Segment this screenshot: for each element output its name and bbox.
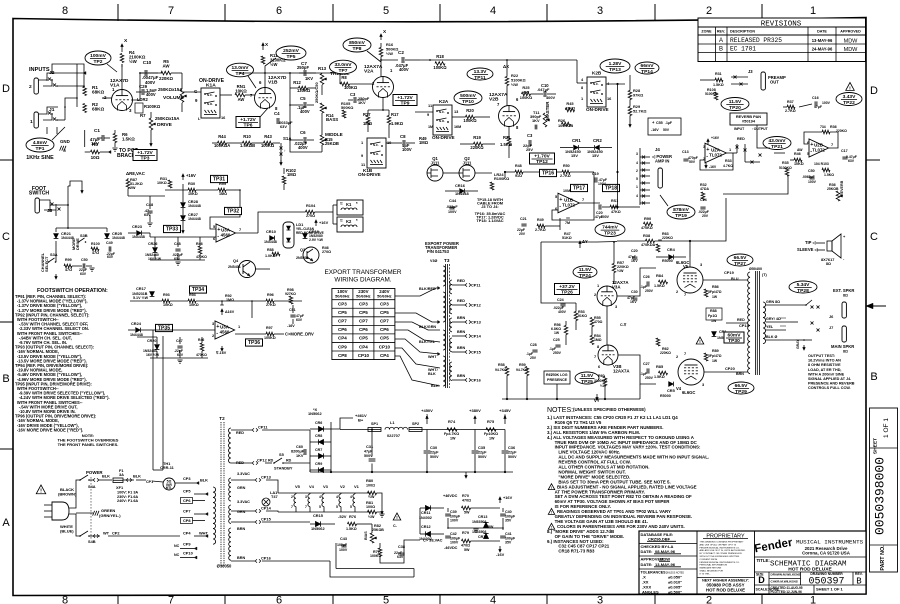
- svg-text:1.5KΩ: 1.5KΩ: [346, 527, 357, 531]
- svg-text:1W: 1W: [554, 331, 560, 335]
- svg-text:C42: C42: [450, 532, 457, 536]
- T2 heater secondary 1: [229, 478, 231, 501]
- svg-text:V4: V4: [676, 386, 682, 391]
- resistor R56: [564, 326, 568, 335]
- arrow +16V LD1: [315, 222, 317, 226]
- svg-text:MUSICAL INSTRUMENTS: MUSICAL INSTRUMENTS: [796, 539, 864, 546]
- svg-text:1N4448: 1N4448: [455, 191, 469, 196]
- svg-text:8Ω: 8Ω: [843, 350, 848, 354]
- svg-text:BRN: BRN: [457, 330, 465, 334]
- svg-text:K2: K2: [346, 219, 352, 224]
- svg-text:A: A: [719, 38, 723, 44]
- resistor R36a top: [822, 130, 830, 134]
- resistor R22 plate: [505, 77, 509, 86]
- svg-text:8: 8: [62, 595, 68, 604]
- filter cap C30: [424, 450, 431, 452]
- callout TP23 744mV: [595, 223, 625, 237]
- svg-text:PLOTTED:12-JUN-96: PLOTTED:12-JUN-96: [771, 590, 802, 594]
- diode CR25: [105, 234, 110, 239]
- svg-text:100V: 100V: [598, 182, 607, 186]
- svg-text:R97: R97: [266, 326, 273, 330]
- resistor RN1: [235, 93, 245, 97]
- svg-text:TP36: TP36: [248, 340, 260, 346]
- svg-text:400V: 400V: [298, 145, 308, 150]
- svg-text:10KΩ: 10KΩ: [235, 89, 247, 94]
- svg-text:J4: J4: [655, 147, 660, 152]
- svg-text:2N5401: 2N5401: [228, 265, 241, 269]
- resistor R96: [266, 299, 274, 303]
- wires input jacks: [39, 73, 61, 80]
- svg-text:½W: ½W: [511, 82, 518, 87]
- resistor R45: [566, 108, 575, 112]
- svg-text:Corona, CA 91720 USA: Corona, CA 91720 USA: [802, 551, 851, 556]
- svg-text:V3A: V3A: [612, 285, 621, 290]
- capacitor C8: [402, 140, 404, 146]
- svg-text:R50: R50: [563, 164, 570, 168]
- svg-text:BASS: BASS: [326, 117, 338, 122]
- svg-text:CP10: CP10: [358, 353, 370, 358]
- resistor R85: [659, 371, 668, 375]
- svg-text:-16V: -16V: [496, 552, 505, 557]
- svg-text:8200μF: 8200μF: [291, 450, 305, 454]
- svg-text:4: 4: [490, 595, 496, 604]
- svg-text:CP4: CP4: [338, 336, 347, 341]
- svg-text:250pF: 250pF: [297, 65, 309, 70]
- svg-text:RED: RED: [457, 279, 465, 283]
- svg-text:BLK: BLK: [133, 474, 141, 479]
- svg-text:CR7: CR7: [315, 448, 322, 452]
- capacitor C10: [144, 70, 146, 76]
- svg-text:CR11: CR11: [421, 511, 430, 515]
- svg-text:MAIN SPKR: MAIN SPKR: [831, 344, 854, 349]
- svg-text:Ø50400: Ø50400: [749, 267, 762, 271]
- svg-text:DESCRIPTION: DESCRIPTION: [730, 30, 755, 34]
- svg-text:7M: 7M: [565, 221, 570, 225]
- svg-text:↑OUTPUT: ↑OUTPUT: [752, 127, 769, 131]
- svg-text:CP5: CP5: [380, 336, 389, 341]
- supply +450V arrow: [426, 418, 428, 424]
- resistor R100: [91, 247, 99, 251]
- filter cap C36: [502, 450, 509, 452]
- svg-text:N.C.: N.C.: [207, 93, 213, 97]
- svg-text:CR13: CR13: [478, 515, 487, 519]
- AC plug: [52, 502, 69, 520]
- svg-text:≈: ≈: [340, 202, 343, 207]
- svg-text:CP18: CP18: [739, 323, 750, 328]
- svg-text:100V: 100V: [450, 541, 459, 545]
- svg-text:TP7: TP7: [339, 68, 348, 74]
- svg-text:C50: C50: [808, 169, 815, 173]
- transformer T3 primary windings: [443, 266, 446, 286]
- diode CR28: [181, 203, 186, 208]
- power amp bottom return bus: [502, 398, 640, 400]
- svg-text:4560: 4560: [221, 232, 231, 237]
- capacitor C3 cathode: [528, 140, 530, 146]
- svg-text:Δ16V: Δ16V: [225, 310, 235, 314]
- svg-text:TP17: TP17: [573, 186, 585, 192]
- svg-text:47KΩ: 47KΩ: [611, 210, 621, 214]
- svg-text:8Ω: 8Ω: [843, 294, 848, 298]
- svg-text:.0068μF: .0068μF: [802, 175, 815, 179]
- svg-text:4560: 4560: [220, 329, 230, 334]
- svg-text:1MΩ: 1MΩ: [287, 172, 297, 177]
- svg-text:68KΩ: 68KΩ: [92, 90, 104, 95]
- svg-text:AND USE OF ALL OR PART OF IT I: AND USE OF ALL OR PART OF IT IS: [700, 543, 737, 546]
- wires FETs: [443, 172, 459, 174]
- svg-text:R99: R99: [65, 258, 72, 262]
- callout TP29: [728, 382, 754, 394]
- resistor R99b: [218, 188, 226, 192]
- svg-text:7: 7: [305, 505, 307, 509]
- svg-text:#50194: #50194: [742, 119, 756, 124]
- svg-text:470KΩ: 470KΩ: [641, 226, 653, 230]
- svg-text:HOT ROD DELUXE: HOT ROD DELUXE: [706, 588, 745, 593]
- svg-text:10KΩ: 10KΩ: [794, 162, 804, 166]
- svg-text:2: 2: [636, 169, 638, 173]
- tube V1A: [112, 90, 133, 111]
- svg-text:ΔR8,VAC: ΔR8,VAC: [126, 171, 146, 176]
- capacitor C7: [303, 70, 305, 76]
- svg-text:2: 2: [291, 495, 293, 499]
- svg-text:SLEEVE ◁: SLEEVE ◁: [797, 247, 818, 252]
- supply arrow X: [121, 46, 123, 52]
- TP30 box: [724, 332, 744, 343]
- svg-text:100Ω: 100Ω: [366, 484, 375, 488]
- export wiring table: [332, 289, 395, 360]
- diode CR19: [303, 234, 308, 239]
- transformer T1 primary: [748, 272, 750, 374]
- svg-text:C47: C47: [176, 339, 183, 343]
- svg-text:R89: R89: [712, 349, 719, 353]
- svg-text:±0.500": ±0.500": [668, 590, 682, 595]
- svg-text:TIP ◁: TIP ◁: [805, 240, 817, 245]
- svg-text:Q4: Q4: [233, 258, 239, 263]
- svg-text:24-MAY-96: 24-MAY-96: [812, 47, 833, 52]
- svg-text:500V: 500V: [478, 455, 487, 459]
- callout TP10: [454, 91, 482, 105]
- +16V arrow: [499, 499, 501, 503]
- svg-text:C30: C30: [430, 445, 437, 450]
- wire power bus continuity: [597, 241, 617, 244]
- svg-text:REVISIONS: REVISIONS: [761, 21, 802, 29]
- title block size-drawing-rev row: [768, 572, 770, 585]
- svg-text:RS1: RS1: [611, 199, 618, 203]
- svg-text:R94: R94: [189, 293, 197, 297]
- svg-text:3: 3: [636, 152, 638, 156]
- svg-text:CP12: CP12: [471, 303, 482, 308]
- TP26 box: [555, 284, 580, 295]
- presence pot R67: [544, 371, 570, 384]
- svg-text:1: 1: [30, 119, 33, 125]
- svg-text:+16V: +16V: [186, 173, 196, 178]
- svg-text:R5000: R5000: [662, 259, 673, 263]
- callout TP27: [727, 254, 753, 266]
- diode CR2: [595, 145, 600, 150]
- svg-text:C35: C35: [478, 445, 486, 450]
- jack J6: [842, 302, 846, 318]
- svg-text:½W: ½W: [617, 269, 624, 273]
- svg-text:1.5KΩ: 1.5KΩ: [122, 137, 135, 142]
- svg-text:C19: C19: [592, 172, 599, 176]
- heater bus top: [278, 492, 370, 494]
- svg-text:R75: R75: [487, 419, 495, 424]
- svg-text:OUT: OUT: [770, 80, 779, 85]
- svg-text:1.5KΩ: 1.5KΩ: [824, 173, 834, 177]
- capacitor C1: [101, 135, 103, 141]
- svg-text:4.7KΩ: 4.7KΩ: [723, 164, 733, 168]
- svg-text:CP4: CP4: [380, 353, 389, 358]
- svg-text:C3: C3: [350, 92, 356, 97]
- svg-text:500V: 500V: [508, 455, 517, 459]
- callout TP8: [343, 38, 371, 52]
- svg-text:R31: R31: [715, 72, 722, 76]
- svg-text:R46: R46: [794, 152, 801, 156]
- arrow -16V U3B: [221, 346, 223, 349]
- transformer T1 secondary: [763, 302, 766, 344]
- svg-text:400V: 400V: [546, 95, 555, 100]
- svg-text:-: -: [216, 331, 218, 337]
- supply +345V arrow: [504, 418, 506, 424]
- svg-text:C51: C51: [289, 308, 296, 312]
- op-amp U2A: [705, 143, 726, 163]
- svg-text:R86: R86: [712, 285, 719, 289]
- svg-text:V5: V5: [295, 484, 301, 489]
- svg-text:C24: C24: [557, 298, 565, 302]
- svg-text:TP14: TP14: [641, 69, 653, 75]
- svg-text:EXPORT TRANSFORMER: EXPORT TRANSFORMER: [324, 269, 401, 276]
- mains wires: [69, 480, 80, 508]
- svg-text:MDW: MDW: [844, 39, 859, 45]
- svg-text:J111: J111: [463, 161, 472, 166]
- svg-text:≈: ≈: [340, 219, 343, 224]
- svg-text:TP18: 1.14VAC: TP18: 1.14VAC: [476, 218, 503, 223]
- svg-text:50/60Hz: 50/60Hz: [335, 294, 350, 299]
- wire white to CP2: [89, 535, 100, 537]
- svg-text:NC: NC: [174, 544, 180, 548]
- svg-text:470KΩA: 470KΩA: [641, 243, 656, 247]
- svg-text:J3: J3: [748, 69, 753, 74]
- diode CR17 zener: [150, 292, 155, 297]
- svg-text:CR9: CR9: [315, 462, 322, 466]
- svg-text:500KΩ: 500KΩ: [341, 105, 353, 110]
- capacitor C48b: [175, 248, 180, 250]
- capacitor C50: [82, 263, 84, 268]
- svg-text:DRIVE: DRIVE: [75, 238, 80, 250]
- svg-text:R27: R27: [363, 112, 371, 117]
- svg-text:TP25: TP25: [581, 379, 593, 385]
- relay K1B: [367, 138, 386, 168]
- svg-text:1 OF 1: 1 OF 1: [883, 418, 890, 438]
- svg-text:25V: 25V: [526, 147, 533, 152]
- svg-text:REV.: REV.: [717, 30, 725, 34]
- svg-text:CP5: CP5: [359, 310, 368, 315]
- svg-text:100V: 100V: [808, 180, 817, 184]
- svg-text:CP15: CP15: [471, 350, 482, 355]
- T3 secondary windings: [450, 280, 452, 294]
- svg-text:6: 6: [276, 595, 282, 604]
- svg-text:C28: C28: [530, 343, 537, 347]
- svg-text:1N4002: 1N4002: [419, 516, 432, 520]
- resistor R29: [628, 107, 632, 116]
- svg-text:R19: R19: [473, 135, 481, 140]
- svg-text:3A: 3A: [119, 472, 124, 477]
- svg-text:DATE:: DATE:: [641, 549, 653, 554]
- svg-text:4: 4: [636, 194, 638, 198]
- svg-text:CR8: CR8: [315, 434, 322, 438]
- svg-text:250KΩx15A: 250KΩx15A: [158, 87, 183, 92]
- svg-text:CR15: CR15: [313, 513, 324, 518]
- svg-text:(GRN/YEL.): (GRN/YEL.): [99, 513, 121, 518]
- resistor R76: [348, 522, 357, 526]
- svg-text:K2B: K2B: [592, 71, 602, 76]
- svg-text:1: 1: [810, 5, 816, 17]
- heater bus bottom: [278, 511, 370, 513]
- 16V mid ground: [448, 527, 503, 529]
- speaker icon: [827, 241, 832, 251]
- svg-text:10KΩ: 10KΩ: [163, 303, 173, 307]
- svg-text:CP11: CP11: [471, 283, 481, 288]
- callout TP22: [836, 93, 862, 106]
- svg-text:13-MAY-96: 13-MAY-96: [655, 562, 676, 567]
- svg-text:91Ω: 91Ω: [515, 174, 522, 178]
- svg-text:V4: V4: [309, 484, 315, 489]
- svg-text:NOTES:: NOTES:: [547, 407, 573, 414]
- svg-text:TP1: TP1: [36, 146, 45, 152]
- svg-text:5: 5: [350, 505, 352, 509]
- svg-text:PART NO.: PART NO.: [880, 545, 886, 571]
- T2 HV secondary: [229, 428, 232, 463]
- resistor R1: [83, 87, 87, 96]
- svg-text:IMMEDIATE RETURN: IMMEDIATE RETURN: [700, 567, 722, 570]
- svg-text:R20: R20: [466, 108, 474, 113]
- svg-text:CP14: CP14: [471, 334, 482, 339]
- ground green wire: [76, 512, 93, 514]
- resistor R37: [787, 105, 795, 109]
- svg-text:R96: R96: [267, 293, 274, 297]
- tube V1B: [255, 88, 276, 109]
- resistor R8 grid: [341, 82, 350, 86]
- svg-text:7: 7: [239, 227, 241, 232]
- jack J1: [34, 112, 38, 128]
- svg-text:20V: 20V: [519, 232, 526, 236]
- svg-text:GRN: GRN: [237, 486, 246, 490]
- capacitor C20 RS1: [598, 204, 600, 209]
- diode CR24: [136, 328, 141, 333]
- svg-text:C48: C48: [174, 242, 181, 246]
- left zone ticks: [0, 159, 13, 161]
- svg-text:16M: 16M: [454, 125, 461, 129]
- resistor R94: [188, 299, 196, 303]
- svg-text:-46VDC: -46VDC: [444, 546, 458, 550]
- svg-text:1KHz SINE: 1KHz SINE: [26, 155, 54, 161]
- svg-text:R37: R37: [787, 100, 794, 104]
- resistor R5: [161, 71, 171, 75]
- svg-text:TP28: TP28: [797, 288, 809, 294]
- TP18 box: [603, 184, 620, 191]
- svg-text:N.O.: N.O.: [207, 102, 213, 106]
- svg-text:51KΩ: 51KΩ: [562, 236, 572, 240]
- T2 bias taps: [231, 521, 255, 523]
- svg-text:1.5KΩ: 1.5KΩ: [500, 142, 513, 147]
- svg-text:TP13: TP13: [609, 67, 621, 73]
- svg-text:470Ω: 470Ω: [462, 499, 471, 503]
- svg-text:½W: ½W: [368, 515, 375, 519]
- warning triangle bias: [696, 337, 704, 344]
- svg-text:100μF: 100μF: [337, 543, 348, 547]
- svg-text:TP11: TP11: [474, 75, 486, 81]
- svg-text:RED: RED: [737, 318, 745, 322]
- svg-text:C: C: [870, 231, 878, 243]
- jack J7: [842, 326, 846, 342]
- reverb pan box: [730, 113, 767, 125]
- svg-text:K1: K1: [346, 202, 352, 207]
- svg-text:CP8: CP8: [183, 518, 191, 523]
- svg-text:GRY/ 4Ω: GRY/ 4Ω: [766, 317, 781, 321]
- svg-text:RED: RED: [737, 137, 745, 141]
- svg-text:47KΩ: 47KΩ: [565, 106, 575, 111]
- svg-text:CR26: CR26: [148, 242, 157, 246]
- svg-text:C36: C36: [508, 445, 516, 450]
- wire V1B plate bus: [240, 72, 340, 74]
- svg-text:R12: R12: [293, 80, 301, 85]
- svg-text:CR2: CR2: [593, 138, 602, 143]
- long vertical wires left of T2: [152, 330, 154, 470]
- svg-text:63V: 63V: [296, 318, 303, 322]
- svg-text:C26: C26: [643, 275, 650, 279]
- svg-text:2: 2: [706, 595, 712, 604]
- svg-text:250K LOG: 250K LOG: [551, 373, 568, 377]
- svg-text:CR1: CR1: [572, 138, 581, 143]
- capacitor C25: [555, 344, 560, 346]
- svg-text:REVERB: REVERB: [840, 180, 844, 196]
- svg-text:BRN: BRN: [457, 346, 465, 350]
- svg-text:68KΩ: 68KΩ: [92, 107, 104, 112]
- resistor R17: [387, 116, 391, 125]
- TP9 box: [393, 95, 417, 106]
- svg-text:734: 734: [820, 125, 826, 129]
- svg-text:C10: C10: [143, 60, 152, 65]
- supply +380V arrow: [474, 418, 476, 424]
- svg-text:BRN: BRN: [237, 556, 245, 560]
- svg-text:-52V: -52V: [338, 514, 347, 519]
- right zone tick: [866, 159, 880, 161]
- svg-text:15V: 15V: [592, 153, 599, 158]
- svg-text:R30: R30: [188, 181, 195, 186]
- svg-text:↑: ↑: [284, 148, 286, 153]
- bridge rect wires: [309, 430, 311, 472]
- svg-text:AMP IN: AMP IN: [655, 159, 669, 164]
- svg-text:Q3: Q3: [300, 247, 306, 252]
- svg-text:R21: R21: [503, 135, 511, 140]
- svg-text:TL072: TL072: [812, 147, 825, 152]
- svg-text:5100KΩ: 5100KΩ: [779, 166, 792, 170]
- svg-text:C3: C3: [527, 133, 533, 138]
- svg-text:R80: R80: [366, 478, 373, 483]
- svg-text:CP12: CP12: [257, 458, 268, 463]
- svg-text:CR20: CR20: [147, 339, 156, 343]
- svg-text:100V: 100V: [448, 210, 457, 214]
- svg-text:CP7: CP7: [183, 509, 191, 514]
- svg-text:100KΩ: 100KΩ: [433, 65, 447, 70]
- svg-text:TP6: TP6: [244, 123, 253, 129]
- svg-text:220KΩ: 220KΩ: [159, 76, 173, 81]
- tube V5 6L6GC: [677, 267, 703, 293]
- svg-text:½W: ½W: [270, 62, 277, 67]
- svg-text:R104: R104: [306, 203, 316, 208]
- svg-text:500V: 500V: [430, 455, 439, 459]
- relay K2A: [433, 105, 452, 135]
- ground bus B+ filters: [310, 471, 513, 473]
